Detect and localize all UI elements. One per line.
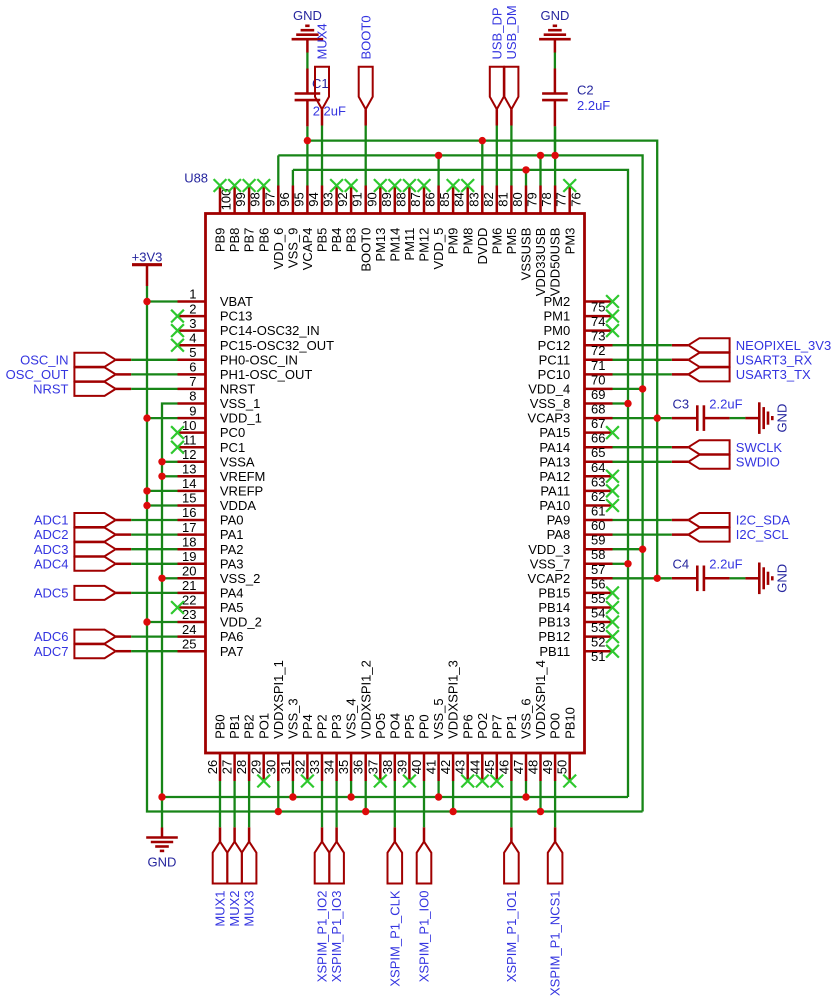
- wire OSC_OUT to pin 6: [131, 373, 177, 375]
- wire pin 27 down to MUX2: [233, 781, 235, 827]
- wire MUX4 to pin93: [321, 126, 323, 186]
- wire VSS top rail: [293, 170, 628, 797]
- pin 57 VSS_7 (right): [530, 556, 613, 576]
- capacitor C2: [542, 69, 568, 127]
- svg-text:PO1: PO1: [256, 713, 271, 739]
- svg-text:USART3_TX: USART3_TX: [736, 367, 811, 382]
- junction VCAP rail / C1 / pin94: [304, 137, 311, 144]
- svg-text:PP5: PP5: [402, 714, 417, 739]
- hierarchical label XSPIM_P1_IO3: [329, 827, 344, 982]
- svg-text:PO0: PO0: [548, 713, 563, 739]
- pin 40 PP0 (bottom): [409, 714, 432, 781]
- svg-text:XSPIM_P1_CLK: XSPIM_P1_CLK: [387, 890, 402, 986]
- svg-text:PA5: PA5: [220, 600, 244, 615]
- pin 47 VSS_6 (bottom): [511, 698, 534, 781]
- junction +3V3 / pin15 VDDA: [143, 502, 150, 509]
- no-connect X pin 87: [403, 179, 416, 192]
- pin 89 PM13 (top): [373, 186, 394, 262]
- pin 1 VBAT (left): [178, 287, 253, 309]
- svg-text:17: 17: [182, 520, 196, 535]
- pin 19 PA3 (left): [178, 549, 244, 571]
- svg-text:51: 51: [591, 649, 605, 664]
- no-connect X pin 2: [171, 310, 184, 323]
- pin 13 VREFM (left): [178, 462, 266, 484]
- svg-text:MUX3: MUX3: [242, 891, 257, 927]
- wire pin20 VSS_2: [162, 577, 178, 579]
- pin 60 PA9 (right): [547, 513, 613, 533]
- wire C2 down to VDD rail: [554, 126, 556, 155]
- svg-text:PC13: PC13: [220, 309, 253, 324]
- no-connect X pin 98: [243, 179, 256, 192]
- svg-text:PA11: PA11: [540, 484, 570, 499]
- svg-text:VDDXSPI1_4: VDDXSPI1_4: [533, 660, 548, 739]
- wire pin95 VSS_9 up: [292, 170, 294, 186]
- hierarchical label XSPIM_P1_IO0: [417, 827, 432, 982]
- svg-text:PA0: PA0: [220, 513, 244, 528]
- svg-text:PM5: PM5: [504, 228, 519, 255]
- wire pin71 PC11 to USART3_RX: [613, 359, 672, 361]
- svg-text:2: 2: [189, 301, 196, 316]
- svg-text:9: 9: [189, 403, 196, 418]
- pin 45 PP7 (bottom): [482, 714, 505, 781]
- svg-text:MUX4: MUX4: [315, 23, 330, 59]
- junction VDD rail / pin58 VDD_3: [639, 546, 646, 553]
- junction VDD rail / pin69 VDD_4: [639, 385, 646, 392]
- hierarchical label ADC4: [34, 556, 131, 571]
- svg-text:92: 92: [335, 192, 350, 206]
- pin 5 PH0-OSC_IN (left): [178, 345, 298, 367]
- svg-text:PA8: PA8: [547, 527, 571, 542]
- svg-text:ADC6: ADC6: [34, 629, 69, 644]
- hierarchical label OSC_IN: [20, 352, 131, 367]
- svg-text:PA13: PA13: [539, 454, 570, 469]
- svg-text:PB9: PB9: [213, 228, 228, 253]
- pin 77 VDD50USB (top): [548, 186, 569, 297]
- svg-text:VREFP: VREFP: [220, 484, 263, 499]
- svg-text:PM2: PM2: [543, 294, 570, 309]
- pin 36 VDDXSPI1_2 (bottom): [351, 660, 374, 781]
- svg-text:44: 44: [467, 760, 482, 774]
- pin 97 PB6 (top): [256, 186, 277, 253]
- no-connect X pin 83: [461, 179, 474, 192]
- junction VSS / pin13 VREFM: [158, 473, 165, 480]
- svg-text:98: 98: [248, 192, 263, 206]
- svg-text:VDD_2: VDD_2: [220, 615, 262, 630]
- pin 62 PA11 (right): [540, 484, 612, 504]
- no-connect X pin 4: [171, 339, 184, 352]
- svg-text:33: 33: [307, 760, 322, 774]
- svg-text:55: 55: [591, 591, 605, 606]
- svg-text:PP0: PP0: [417, 714, 432, 739]
- hierarchical label USART3_RX: [672, 352, 813, 367]
- junction VDD rail / pin 30: [275, 808, 282, 815]
- ground symbol GND (right of C3): [745, 402, 789, 434]
- svg-text:SWDIO: SWDIO: [736, 454, 780, 469]
- wire pin 36 down to VDD rail: [365, 781, 367, 812]
- no-connect X pin 75: [606, 295, 619, 308]
- svg-text:90: 90: [364, 192, 379, 206]
- svg-text:VREFM: VREFM: [220, 469, 266, 484]
- wire pin 47 down to VSS rail: [525, 781, 527, 797]
- svg-text:VDD50USB: VDD50USB: [548, 228, 563, 297]
- svg-text:72: 72: [591, 343, 605, 358]
- hierarchical label OSC_OUT: [6, 367, 132, 382]
- pin 11 PC1 (left): [178, 432, 246, 454]
- svg-text:89: 89: [379, 192, 394, 206]
- wire VSS left vertical with GND: [162, 404, 178, 828]
- junction VCAP rail / pin56 VCAP2: [654, 575, 661, 582]
- svg-text:16: 16: [182, 505, 196, 520]
- svg-text:VSS_3: VSS_3: [286, 698, 301, 738]
- svg-text:VSS_6: VSS_6: [519, 698, 534, 738]
- junction VSS / pin20 VSS_2: [158, 575, 165, 582]
- svg-text:PA9: PA9: [547, 513, 571, 528]
- hierarchical label ADC7: [34, 644, 131, 659]
- svg-text:PC10: PC10: [538, 367, 571, 382]
- no-connect X pin 91: [345, 179, 358, 192]
- wire pin 34 down to XSPIM_P1_IO3: [335, 781, 337, 827]
- svg-text:96: 96: [277, 192, 292, 206]
- svg-text:PA12: PA12: [539, 469, 570, 484]
- svg-text:53: 53: [591, 620, 605, 635]
- wire ADC5 to pin 21: [131, 592, 177, 594]
- wire pin1 VBAT to +3V3: [147, 300, 178, 302]
- wire pin 41 down to VSS rail: [437, 781, 439, 797]
- svg-text:PA14: PA14: [539, 440, 570, 455]
- svg-text:PP2: PP2: [315, 714, 330, 739]
- svg-text:93: 93: [321, 192, 336, 206]
- svg-text:26: 26: [205, 760, 220, 774]
- svg-text:77: 77: [554, 192, 569, 206]
- svg-text:BOOT0: BOOT0: [358, 228, 373, 272]
- wire pin78 VDD33USB up: [539, 155, 541, 185]
- svg-text:84: 84: [452, 192, 467, 206]
- hierarchical label NRST: [33, 382, 131, 397]
- hierarchical label USB_DP: [489, 7, 504, 125]
- svg-text:50: 50: [555, 760, 570, 774]
- svg-text:39: 39: [394, 760, 409, 774]
- capacitor C4: [672, 566, 730, 592]
- junction VSS rail / pin79 VSSUSB: [522, 166, 529, 173]
- no-connect X pin 32: [301, 775, 314, 788]
- svg-text:PM0: PM0: [543, 323, 570, 338]
- svg-text:PB14: PB14: [538, 600, 570, 615]
- pin 81 PM6 (top): [489, 186, 510, 255]
- wire pin 33 down to XSPIM_P1_IO2: [321, 781, 323, 827]
- svg-text:ADC4: ADC4: [34, 556, 69, 571]
- svg-text:C3: C3: [673, 396, 690, 411]
- power symbol +3V3: [132, 249, 163, 286]
- hierarchical label ADC6: [34, 629, 131, 644]
- wire VSS bottom rail: [162, 796, 628, 798]
- wire pin 46 down to XSPIM_P1_IO1: [510, 781, 512, 827]
- svg-text:PB6: PB6: [256, 228, 271, 253]
- junction VDD rail / pin78 VDD33USB: [537, 152, 544, 159]
- svg-text:PB11: PB11: [539, 644, 570, 659]
- no-connect X pin 52: [606, 630, 619, 643]
- pin 27 PB1 (bottom): [220, 714, 243, 781]
- svg-text:PM8: PM8: [460, 228, 475, 255]
- svg-text:VSS_4: VSS_4: [344, 698, 359, 738]
- pin 17 PA1 (left): [178, 520, 244, 542]
- svg-text:67: 67: [591, 416, 605, 431]
- svg-text:6: 6: [189, 360, 196, 375]
- no-connect X pin 29: [257, 775, 270, 788]
- wire USB_DM to pin80: [510, 126, 512, 186]
- svg-text:80: 80: [510, 192, 525, 206]
- pin 15 VDDA (left): [178, 491, 257, 513]
- no-connect X pin 50: [563, 775, 576, 788]
- svg-text:VCAP2: VCAP2: [528, 571, 571, 586]
- svg-text:14: 14: [182, 476, 196, 491]
- hierarchical label I2C_SDA: [672, 513, 791, 528]
- svg-text:37: 37: [365, 760, 380, 774]
- svg-text:57: 57: [591, 562, 605, 577]
- pin 7 NRST (left): [178, 374, 256, 396]
- no-connect X pin 45: [490, 775, 503, 788]
- svg-text:61: 61: [591, 504, 605, 519]
- pin 33 PP2 (bottom): [307, 714, 330, 781]
- wire VCAP top rail: [307, 141, 657, 579]
- hierarchical label ADC2: [34, 527, 131, 542]
- svg-text:86: 86: [423, 192, 438, 206]
- no-connect X pin 37: [374, 775, 387, 788]
- pin 39 PP5 (bottom): [394, 714, 417, 781]
- wire pin85 VDD_5 up: [437, 155, 439, 185]
- pin 50 PB10 (bottom): [555, 707, 578, 781]
- svg-text:66: 66: [591, 431, 605, 446]
- pin 34 PP3 (bottom): [322, 714, 345, 781]
- svg-text:40: 40: [409, 760, 424, 774]
- junction VSS rail / pin 47: [522, 793, 529, 800]
- pin 99 PB8 (top): [227, 186, 248, 253]
- pin 65 PA14 (right): [539, 440, 612, 460]
- wire VDD top rail: [278, 155, 642, 811]
- junction VCAP rail / pin67 VCAP3: [654, 414, 661, 421]
- no-connect X pin 100: [214, 179, 227, 192]
- svg-text:27: 27: [220, 760, 235, 774]
- no-connect X pin 63: [606, 470, 619, 483]
- wire GND to C2: [554, 53, 556, 69]
- svg-text:VSS_2: VSS_2: [220, 571, 260, 586]
- svg-text:83: 83: [466, 192, 481, 206]
- no-connect X pin 73: [606, 324, 619, 337]
- svg-text:30: 30: [263, 760, 278, 774]
- svg-text:PB2: PB2: [242, 714, 257, 739]
- svg-text:PM9: PM9: [446, 228, 461, 255]
- svg-text:2.2uF: 2.2uF: [313, 104, 346, 119]
- svg-text:12: 12: [182, 447, 196, 462]
- pin 78 VDD33USB (top): [533, 186, 554, 297]
- wire pin72 PC12 to NEOPIXEL_3V3: [613, 344, 672, 346]
- svg-text:MUX2: MUX2: [227, 891, 242, 927]
- no-connect X pin 62: [606, 485, 619, 498]
- svg-text:XSPIM_P1_IO3: XSPIM_P1_IO3: [329, 891, 344, 983]
- svg-text:PC15-OSC32_OUT: PC15-OSC32_OUT: [220, 338, 334, 353]
- svg-text:USART3_RX: USART3_RX: [736, 352, 813, 367]
- svg-text:VDD_6: VDD_6: [271, 228, 286, 270]
- no-connect X pin 61: [606, 499, 619, 512]
- svg-text:PB8: PB8: [227, 228, 242, 253]
- svg-text:29: 29: [249, 760, 264, 774]
- pin 8 VSS_1 (left): [178, 389, 261, 411]
- svg-text:38: 38: [380, 760, 395, 774]
- pin 79 VSSUSB (top): [519, 186, 540, 281]
- pin 10 PC0 (left): [178, 418, 246, 440]
- svg-text:PB10: PB10: [562, 707, 577, 739]
- svg-text:74: 74: [591, 314, 605, 329]
- pin 6 PH1-OSC_OUT (left): [178, 360, 313, 382]
- svg-text:XSPIM_P1_IO1: XSPIM_P1_IO1: [504, 891, 519, 983]
- pin 67 VCAP3 (right): [528, 411, 613, 431]
- svg-text:NRST: NRST: [220, 382, 255, 397]
- svg-text:76: 76: [568, 192, 583, 206]
- svg-text:PP3: PP3: [329, 714, 344, 739]
- svg-text:PA6: PA6: [220, 629, 244, 644]
- pin 18 PA2 (left): [178, 534, 244, 556]
- hierarchical label I2C_SCL: [672, 527, 789, 542]
- svg-text:VDDA: VDDA: [220, 498, 256, 513]
- svg-text:PB7: PB7: [242, 228, 257, 253]
- svg-text:18: 18: [182, 534, 196, 549]
- svg-text:32: 32: [292, 760, 307, 774]
- svg-text:DVDD: DVDD: [475, 228, 490, 265]
- hierarchical label MUX3: [242, 827, 257, 926]
- svg-text:PP7: PP7: [489, 714, 504, 739]
- svg-text:PB15: PB15: [538, 586, 570, 601]
- capacitor C3: [672, 405, 730, 431]
- pin 35 VSS_4 (bottom): [336, 698, 359, 781]
- svg-text:PP1: PP1: [504, 714, 519, 739]
- svg-text:41: 41: [424, 760, 439, 774]
- svg-text:2.2uF: 2.2uF: [709, 396, 742, 411]
- wire pin64 PA13 to SWDIO: [613, 461, 672, 463]
- pin 2 PC13 (left): [178, 301, 253, 323]
- capacitor C1: [295, 69, 321, 127]
- svg-text:8: 8: [189, 389, 196, 404]
- pin 64 PA13 (right): [539, 454, 612, 474]
- svg-text:99: 99: [233, 192, 248, 206]
- no-connect X pin 51: [606, 645, 619, 658]
- svg-text:GND: GND: [293, 8, 322, 23]
- no-connect X pin 55: [606, 587, 619, 600]
- svg-text:ADC3: ADC3: [34, 542, 69, 557]
- hierarchical label BOOT0: [358, 15, 373, 125]
- svg-text:15: 15: [182, 491, 196, 506]
- svg-text:69: 69: [591, 387, 605, 402]
- svg-text:PA2: PA2: [220, 542, 244, 557]
- svg-text:VCAP4: VCAP4: [300, 228, 315, 271]
- pin 76 PM3 (top): [562, 186, 583, 255]
- svg-text:NRST: NRST: [33, 382, 68, 397]
- pin 12 VSSA (left): [178, 447, 255, 469]
- pin 38 PO4 (bottom): [380, 713, 403, 781]
- svg-text:VSS_7: VSS_7: [530, 556, 570, 571]
- svg-text:PC14-OSC32_IN: PC14-OSC32_IN: [220, 323, 320, 338]
- svg-text:28: 28: [234, 760, 249, 774]
- svg-text:75: 75: [591, 300, 605, 315]
- no-connect X pin 97: [257, 179, 270, 192]
- pin 22 PA5 (left): [178, 593, 244, 615]
- no-connect X pin 76: [563, 179, 576, 192]
- svg-text:91: 91: [350, 192, 365, 206]
- svg-text:PA4: PA4: [220, 586, 244, 601]
- pin 3 PC14-OSC32_IN (left): [178, 316, 320, 338]
- ground symbol GND (bottom left): [146, 828, 178, 870]
- svg-text:USB_DP: USB_DP: [489, 7, 504, 59]
- wire pin96 VDD_6 up: [277, 155, 279, 185]
- svg-text:62: 62: [591, 489, 605, 504]
- junction VDD rail / pin 42: [449, 808, 456, 815]
- svg-text:I2C_SDA: I2C_SDA: [736, 513, 791, 528]
- wire pin57 VSS_7: [613, 563, 629, 565]
- svg-text:+3V3: +3V3: [132, 249, 163, 264]
- hierarchical label MUX1: [213, 827, 228, 926]
- svg-text:3: 3: [189, 316, 196, 331]
- svg-text:48: 48: [526, 760, 541, 774]
- no-connect X pin 54: [606, 601, 619, 614]
- svg-text:24: 24: [182, 622, 196, 637]
- wire pin15 VDDA to +3V3: [147, 504, 178, 506]
- wire pin 42 down to VDD rail: [452, 781, 454, 812]
- pin 28 PB2 (bottom): [234, 714, 257, 781]
- svg-text:PO2: PO2: [475, 713, 490, 739]
- pin 43 PP6 (bottom): [453, 714, 476, 781]
- hierarchical label XSPIM_P1_IO2: [315, 827, 330, 982]
- pin 98 PB7 (top): [242, 186, 263, 253]
- svg-text:VCAP3: VCAP3: [528, 411, 571, 426]
- junction VSS rail / pin57 VSS_7: [624, 560, 631, 567]
- pin 55 PB15 (right): [538, 586, 612, 606]
- pin 54 PB14 (right): [538, 600, 612, 620]
- svg-text:ADC1: ADC1: [34, 513, 69, 528]
- svg-text:PM12: PM12: [417, 228, 432, 262]
- pin 92 PB4 (top): [329, 186, 350, 253]
- svg-text:C4: C4: [673, 557, 690, 572]
- pin 61 PA10 (right): [539, 498, 612, 518]
- svg-text:PC12: PC12: [538, 338, 571, 353]
- pin 66 PA15 (right): [539, 425, 612, 445]
- no-connect X pin 3: [171, 324, 184, 337]
- svg-text:PM1: PM1: [543, 309, 570, 324]
- svg-text:59: 59: [591, 533, 605, 548]
- svg-text:U88: U88: [184, 171, 208, 186]
- pin 31 VSS_3 (bottom): [278, 698, 301, 781]
- svg-text:NEOPIXEL_3V3: NEOPIXEL_3V3: [736, 338, 831, 353]
- wire NRST to pin 7: [131, 388, 177, 390]
- pin 37 PO5 (bottom): [365, 713, 388, 781]
- wire C4 to GND: [730, 577, 746, 579]
- svg-text:1: 1: [189, 287, 196, 302]
- svg-text:GND: GND: [774, 564, 789, 593]
- no-connect X pin 66: [606, 426, 619, 439]
- svg-text:VSS_5: VSS_5: [431, 698, 446, 738]
- hierarchical label ADC5: [34, 586, 131, 601]
- svg-text:11: 11: [183, 432, 197, 447]
- svg-text:PB4: PB4: [329, 228, 344, 253]
- pin 90 BOOT0 (top): [358, 186, 379, 272]
- hierarchical label USART3_TX: [672, 367, 811, 382]
- no-connect X pin 74: [606, 310, 619, 323]
- svg-text:PA10: PA10: [539, 498, 570, 513]
- svg-text:25: 25: [182, 636, 196, 651]
- svg-text:PA7: PA7: [220, 644, 244, 659]
- wire ADC6 to pin 24: [131, 635, 177, 637]
- pin 58 VDD_3 (right): [528, 542, 612, 562]
- pin 73 PM0 (right): [543, 323, 612, 343]
- hierarchical label ADC3: [34, 542, 131, 557]
- wire OSC_IN to pin 5: [131, 359, 177, 361]
